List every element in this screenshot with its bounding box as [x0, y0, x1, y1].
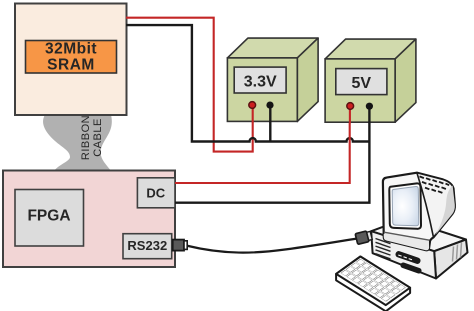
monitor side shading crescent: [436, 186, 455, 235]
monitor vents: [420, 176, 450, 193]
computer case front face: [371, 231, 436, 278]
wire black 5V terminal to DC: [175, 106, 369, 203]
5V red terminal: [347, 103, 354, 110]
wire red SRAM to 3.3V supply: [126, 18, 253, 152]
power supply 5V top face: [325, 39, 416, 59]
FPGA chip: [15, 190, 84, 247]
power supply 3.3V top face: [227, 38, 318, 58]
power supply 3.3V front face: [227, 58, 297, 122]
case lower slot: [400, 262, 423, 275]
svg-text:CABLE: CABLE: [92, 118, 104, 157]
svg-text:FPGA: FPGA: [27, 208, 70, 225]
3.3V red terminal: [249, 102, 256, 109]
power supply 5V side face: [395, 39, 416, 122]
case front vents: [376, 239, 391, 259]
ribbon cable: [43, 115, 112, 171]
svg-text:5V: 5V: [352, 75, 372, 92]
3.3V black terminal: [266, 102, 273, 109]
wire black 3.3V terminal drop overlay: [269, 105, 271, 123]
wire red 5V terminal drop overlay: [349, 106, 351, 123]
RS232 plug tip: [184, 241, 187, 250]
svg-text:32Mbit: 32Mbit: [45, 40, 97, 57]
RS232 cable: [186, 239, 357, 253]
wire black SRAM ground bus: [126, 25, 369, 141]
svg-text:SRAM: SRAM: [47, 57, 95, 74]
monitor right shade: [417, 173, 455, 238]
ribbon cable label: [80, 115, 104, 160]
5V black terminal: [366, 103, 373, 110]
svg-text:DC: DC: [146, 186, 165, 201]
wire black 3.3V terminal drop: [269, 106, 271, 142]
DC module: [137, 178, 175, 208]
3.3V display plate: [234, 67, 286, 93]
monitor screen bezel: [389, 183, 421, 228]
keyboard top face: [336, 257, 410, 306]
SRAM label box: [26, 41, 117, 74]
case right vents: [453, 243, 462, 262]
svg-text:RS232: RS232: [127, 238, 167, 253]
5V display plate: [336, 69, 387, 95]
monitor power button: [413, 241, 417, 245]
monitor skirt: [384, 232, 429, 250]
monitor screen glass: [392, 186, 419, 225]
wire red 3.3V terminal drop overlay: [252, 105, 254, 123]
SRAM label text: [45, 40, 97, 73]
RS232 plug at FPGA: [173, 240, 184, 251]
FPGA board: [3, 171, 175, 268]
case drive slot: [395, 250, 422, 265]
keyboard base: [336, 257, 410, 311]
wire red DC to 5V supply: [175, 106, 350, 183]
SRAM board: [15, 4, 127, 116]
computer case right face: [434, 240, 467, 279]
power supply 5V front face: [325, 59, 395, 122]
svg-text:RIBBON: RIBBON: [80, 115, 92, 160]
monitor skirt line: [384, 232, 430, 240]
svg-text:3.3V: 3.3V: [244, 74, 277, 91]
computer case top face: [371, 219, 466, 251]
RS232 module: [123, 234, 172, 259]
wire black 5V terminal drop overlay: [368, 106, 370, 123]
monitor body: [383, 173, 455, 251]
power supply 3.3V side face: [297, 38, 318, 121]
RS232 plug at computer: [355, 230, 372, 244]
keyboard keys: [341, 259, 405, 301]
